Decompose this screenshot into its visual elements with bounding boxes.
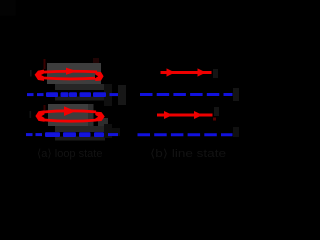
svg-text:⟨b⟩ line state: ⟨b⟩ line state <box>150 148 226 160</box>
svg-text:⟨a⟩ loop state: ⟨a⟩ loop state <box>37 148 102 160</box>
